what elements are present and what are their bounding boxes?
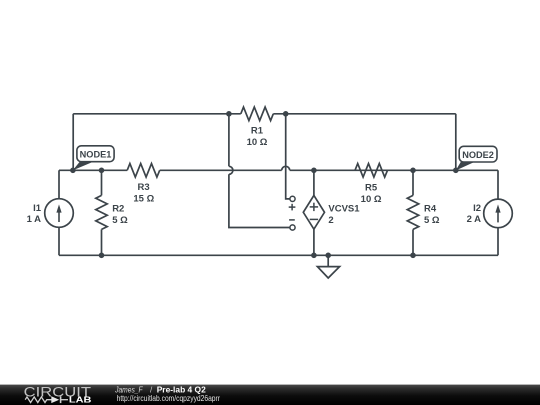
svg-text:R5: R5 [365, 182, 378, 193]
wire right riser x=455.8 [455, 114, 457, 171]
node NODE1 flag [73, 146, 114, 171]
svg-text:NODE1: NODE1 [80, 150, 112, 160]
VCVS1 control + terminal [289, 196, 296, 210]
svg-text:VCVS1: VCVS1 [328, 204, 360, 215]
ground [317, 255, 339, 278]
svg-text:R1: R1 [251, 125, 264, 136]
svg-text:R4: R4 [424, 203, 437, 214]
svg-text:10 Ω: 10 Ω [247, 137, 268, 148]
resistor R1 [241, 107, 273, 148]
VCVS1 dependent source [303, 170, 360, 255]
node NODE2 flag [456, 146, 497, 170]
node junction dots [70, 111, 459, 258]
svg-text:http://circuitlab.com/cqpzyyd2: http://circuitlab.com/cqpzyyd26aprr [117, 394, 221, 403]
svg-text:I2: I2 [473, 203, 481, 214]
wire bottom y=255.3 [59, 254, 498, 256]
wire top loop horizontal y=113.8 [73, 113, 456, 115]
current source I1 [27, 170, 74, 255]
resistor R2 [96, 170, 128, 255]
footer bar [0, 385, 540, 405]
svg-text:Pre-lab 4 Q2: Pre-lab 4 Q2 [157, 384, 206, 394]
svg-text:NODE2: NODE2 [462, 150, 494, 160]
resistor R5 [355, 164, 388, 206]
svg-text:15 Ω: 15 Ω [133, 194, 154, 205]
svg-text:I1: I1 [33, 203, 42, 214]
footer title line [114, 384, 206, 394]
svg-text:5 Ω: 5 Ω [424, 215, 440, 226]
VCVS1 control - terminal [289, 220, 295, 230]
svg-text:10 Ω: 10 Ω [361, 194, 382, 205]
wire left riser x=73.2 [72, 114, 74, 171]
current source I2 [467, 170, 513, 255]
resistor R3 [127, 164, 160, 205]
resistor R4 [407, 170, 440, 255]
svg-text:R3: R3 [138, 182, 150, 193]
svg-text:1 A: 1 A [27, 214, 42, 225]
svg-text:2: 2 [328, 215, 333, 226]
wire node line y=170.3 with hop over x=285.7 [59, 166, 498, 170]
wire control branch B x=285.7 (top wire to + terminal) [286, 114, 290, 199]
svg-text:2 A: 2 A [467, 214, 482, 225]
svg-text:R2: R2 [112, 203, 124, 214]
wire control branch A x=228.9 (top wire to - terminal, hops node line) [229, 114, 290, 228]
CircuitLab logo [24, 384, 92, 404]
svg-text:5 Ω: 5 Ω [112, 215, 128, 226]
svg-text:LAB: LAB [69, 395, 92, 404]
